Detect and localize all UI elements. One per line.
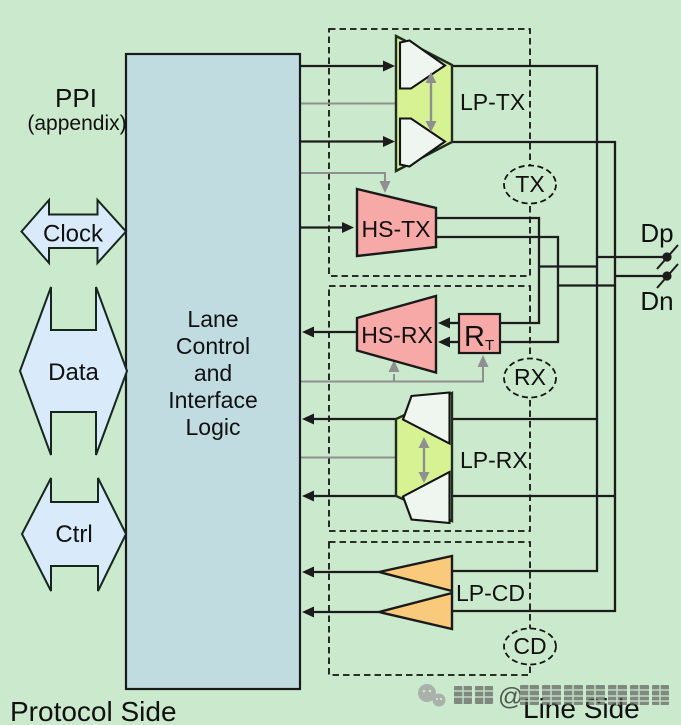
svg-text:(appendix): (appendix) [27,112,126,135]
svg-text:Control: Control [176,333,250,359]
svg-text:RX: RX [514,364,546,390]
svg-text:R: R [464,321,485,353]
svg-text:Data: Data [48,359,99,386]
svg-text:HS-RX: HS-RX [361,322,433,348]
svg-text:@: @ [498,683,523,711]
svg-text:HS-TX: HS-TX [362,216,431,242]
svg-text:T: T [485,337,494,354]
svg-text:Lane: Lane [187,306,238,332]
svg-text:Dp: Dp [640,218,673,248]
svg-text:Interface: Interface [168,387,258,413]
svg-text:Protocol Side: Protocol Side [10,696,177,725]
svg-text:CD: CD [513,633,546,659]
svg-text:LP-TX: LP-TX [460,89,525,115]
svg-text:Logic: Logic [186,414,241,440]
svg-text:LP-RX: LP-RX [460,447,528,473]
svg-text:Dn: Dn [640,286,673,316]
svg-text:Ctrl: Ctrl [55,521,92,548]
svg-text:PPI: PPI [55,83,97,113]
svg-text:Clock: Clock [43,221,104,248]
svg-text:LP-CD: LP-CD [456,580,525,606]
svg-text:and: and [194,360,232,386]
svg-text:TX: TX [515,171,544,197]
